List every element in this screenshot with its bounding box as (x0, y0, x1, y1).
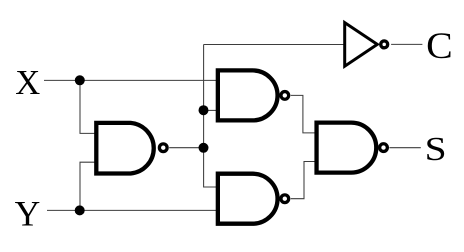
svg-text:X: X (15, 63, 40, 102)
svg-text:S: S (425, 131, 447, 168)
svg-text:C: C (426, 25, 453, 66)
svg-text:Y: Y (15, 194, 41, 234)
